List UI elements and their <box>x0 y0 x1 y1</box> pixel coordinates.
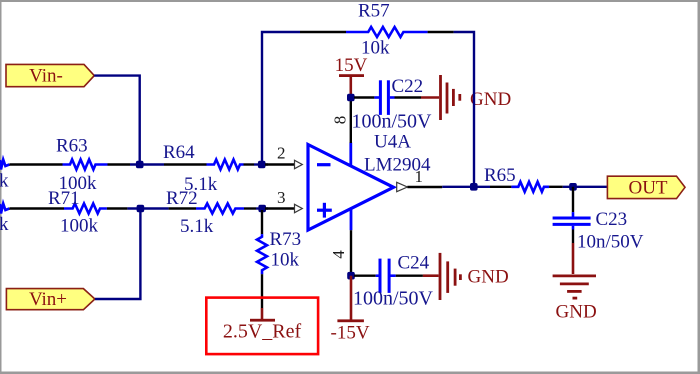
pin wire R71 right <box>107 207 128 209</box>
svg-text:10k: 10k <box>271 250 300 271</box>
svg-text:10k: 10k <box>361 38 390 59</box>
svg-text:C22: C22 <box>392 76 424 97</box>
pin 1 wire <box>407 186 442 188</box>
svg-text:R71: R71 <box>48 188 80 209</box>
wire feedback left vertical <box>262 32 300 163</box>
wire junction to C22 <box>354 96 374 98</box>
node junction C23 / OUT <box>569 183 577 191</box>
svg-text:R57: R57 <box>358 1 390 22</box>
wire C24 to GND <box>396 275 423 277</box>
wire R72 to pin3 <box>256 207 268 209</box>
svg-text:2: 2 <box>277 144 286 163</box>
ground GND (right of C22) <box>421 75 511 120</box>
svg-text:k: k <box>0 214 9 235</box>
ground GND (below C23) <box>553 243 597 323</box>
capacitor C22 <box>374 80 394 115</box>
pin wire row3 left <box>9 207 64 209</box>
wire R64 to pin2 <box>254 163 268 165</box>
pin 2 wire <box>265 163 295 165</box>
port Vin- <box>6 64 94 86</box>
partial resistor at left edge row3 <box>0 204 9 214</box>
svg-text:R72: R72 <box>166 188 198 209</box>
resistor R63 <box>63 160 108 170</box>
svg-text:OUT: OUT <box>628 178 667 199</box>
highlight box around 2.5V_Ref <box>206 298 318 355</box>
svg-text:100k: 100k <box>60 216 99 237</box>
svg-text:U4A: U4A <box>374 132 411 153</box>
pin wire R73 bottom <box>261 274 263 308</box>
power 15V symbol <box>335 55 368 98</box>
svg-text:GND: GND <box>468 267 509 288</box>
pin wire R64 left <box>164 163 207 165</box>
ground GND (right of C24) <box>423 253 509 300</box>
node junction pin4 / -15V / C24 <box>347 272 355 280</box>
pin wire R65 right <box>549 186 563 188</box>
svg-text:2.5V_Ref: 2.5V_Ref <box>223 321 302 343</box>
svg-text:4: 4 <box>329 250 348 259</box>
svg-text:5.1k: 5.1k <box>180 216 214 237</box>
wire Vin- port to corner <box>94 76 139 163</box>
svg-text:k: k <box>0 171 9 192</box>
wire feedback right vertical <box>454 32 474 186</box>
svg-text:GND: GND <box>556 302 597 323</box>
wire output to junction <box>442 186 490 188</box>
svg-text:100n/50V: 100n/50V <box>352 111 433 133</box>
resistor R64 <box>207 160 244 170</box>
wire R71 to R72 <box>127 207 168 209</box>
node junction Vin+ / row3 <box>137 205 145 213</box>
node junction Vin- / row2 <box>136 161 144 169</box>
svg-text:8: 8 <box>331 116 350 125</box>
svg-text:R63: R63 <box>56 136 88 157</box>
resistor R71 <box>64 204 107 214</box>
svg-text:C23: C23 <box>596 209 628 230</box>
wire junction to C23 <box>572 187 574 212</box>
power -15V symbol <box>331 276 370 344</box>
pin wire row2 left <box>9 163 62 165</box>
wire R63 to R64 <box>130 163 164 165</box>
op-amp U4A triangle <box>308 145 394 231</box>
resistor R72 <box>196 204 244 214</box>
wire Vin+ port to corner <box>95 210 140 299</box>
pin wire R72 left <box>169 207 196 209</box>
node junction pin8 / 15V / C22 <box>347 94 355 102</box>
partial resistor at left edge row2 <box>0 160 9 170</box>
svg-text:R64: R64 <box>163 142 195 163</box>
resistor R73 <box>257 234 267 274</box>
pin wire R72 right <box>244 207 256 209</box>
node junction feedback / row2 <box>258 161 266 169</box>
svg-text:R65: R65 <box>484 165 516 186</box>
pin wire R64 right <box>244 163 255 165</box>
svg-text:C24: C24 <box>398 253 430 274</box>
power 2.5V_Ref symbol <box>223 308 302 343</box>
wire pin4 to junction <box>350 230 352 276</box>
port OUT <box>607 176 685 198</box>
op-amp pin 8 stub (blue) <box>349 143 352 167</box>
pin 3 wire <box>265 207 295 209</box>
svg-text:3: 3 <box>277 188 286 207</box>
pin wire R63 right <box>108 163 131 165</box>
pin wire R73 top <box>261 210 263 234</box>
wire junction to C24 <box>354 275 376 277</box>
svg-text:Vin-: Vin- <box>29 66 63 87</box>
svg-text:10n/50V: 10n/50V <box>577 232 644 253</box>
pin 1 output arrow <box>397 182 408 191</box>
capacitor C23 <box>553 212 591 229</box>
wire C22 to GND <box>395 96 422 98</box>
wire R65 to OUT port <box>563 186 608 188</box>
wire C23 to GND <box>572 230 574 244</box>
wire pin8 to junction <box>350 98 352 144</box>
svg-text:-15V: -15V <box>331 322 370 343</box>
pin wire R57 right <box>428 31 454 33</box>
svg-text:GND: GND <box>470 89 511 110</box>
resistor R65 <box>511 182 549 192</box>
node junction R73 / row3 <box>258 205 266 213</box>
svg-text:100n/50V: 100n/50V <box>353 288 434 310</box>
svg-text:R73: R73 <box>270 229 302 250</box>
capacitor C24 <box>376 259 396 293</box>
node junction output / feedback <box>470 183 478 191</box>
pin wire R57 left <box>300 31 346 33</box>
op-amp pin 4 stub (blue) <box>350 208 353 230</box>
pin 3 arrow <box>295 204 303 212</box>
pin wire R65 left <box>490 186 511 188</box>
resistor R57 <box>346 27 428 37</box>
svg-text:Vin+: Vin+ <box>29 289 67 310</box>
port Vin+ <box>6 289 95 310</box>
svg-text:1: 1 <box>415 167 424 186</box>
pin 2 arrow <box>295 160 303 168</box>
